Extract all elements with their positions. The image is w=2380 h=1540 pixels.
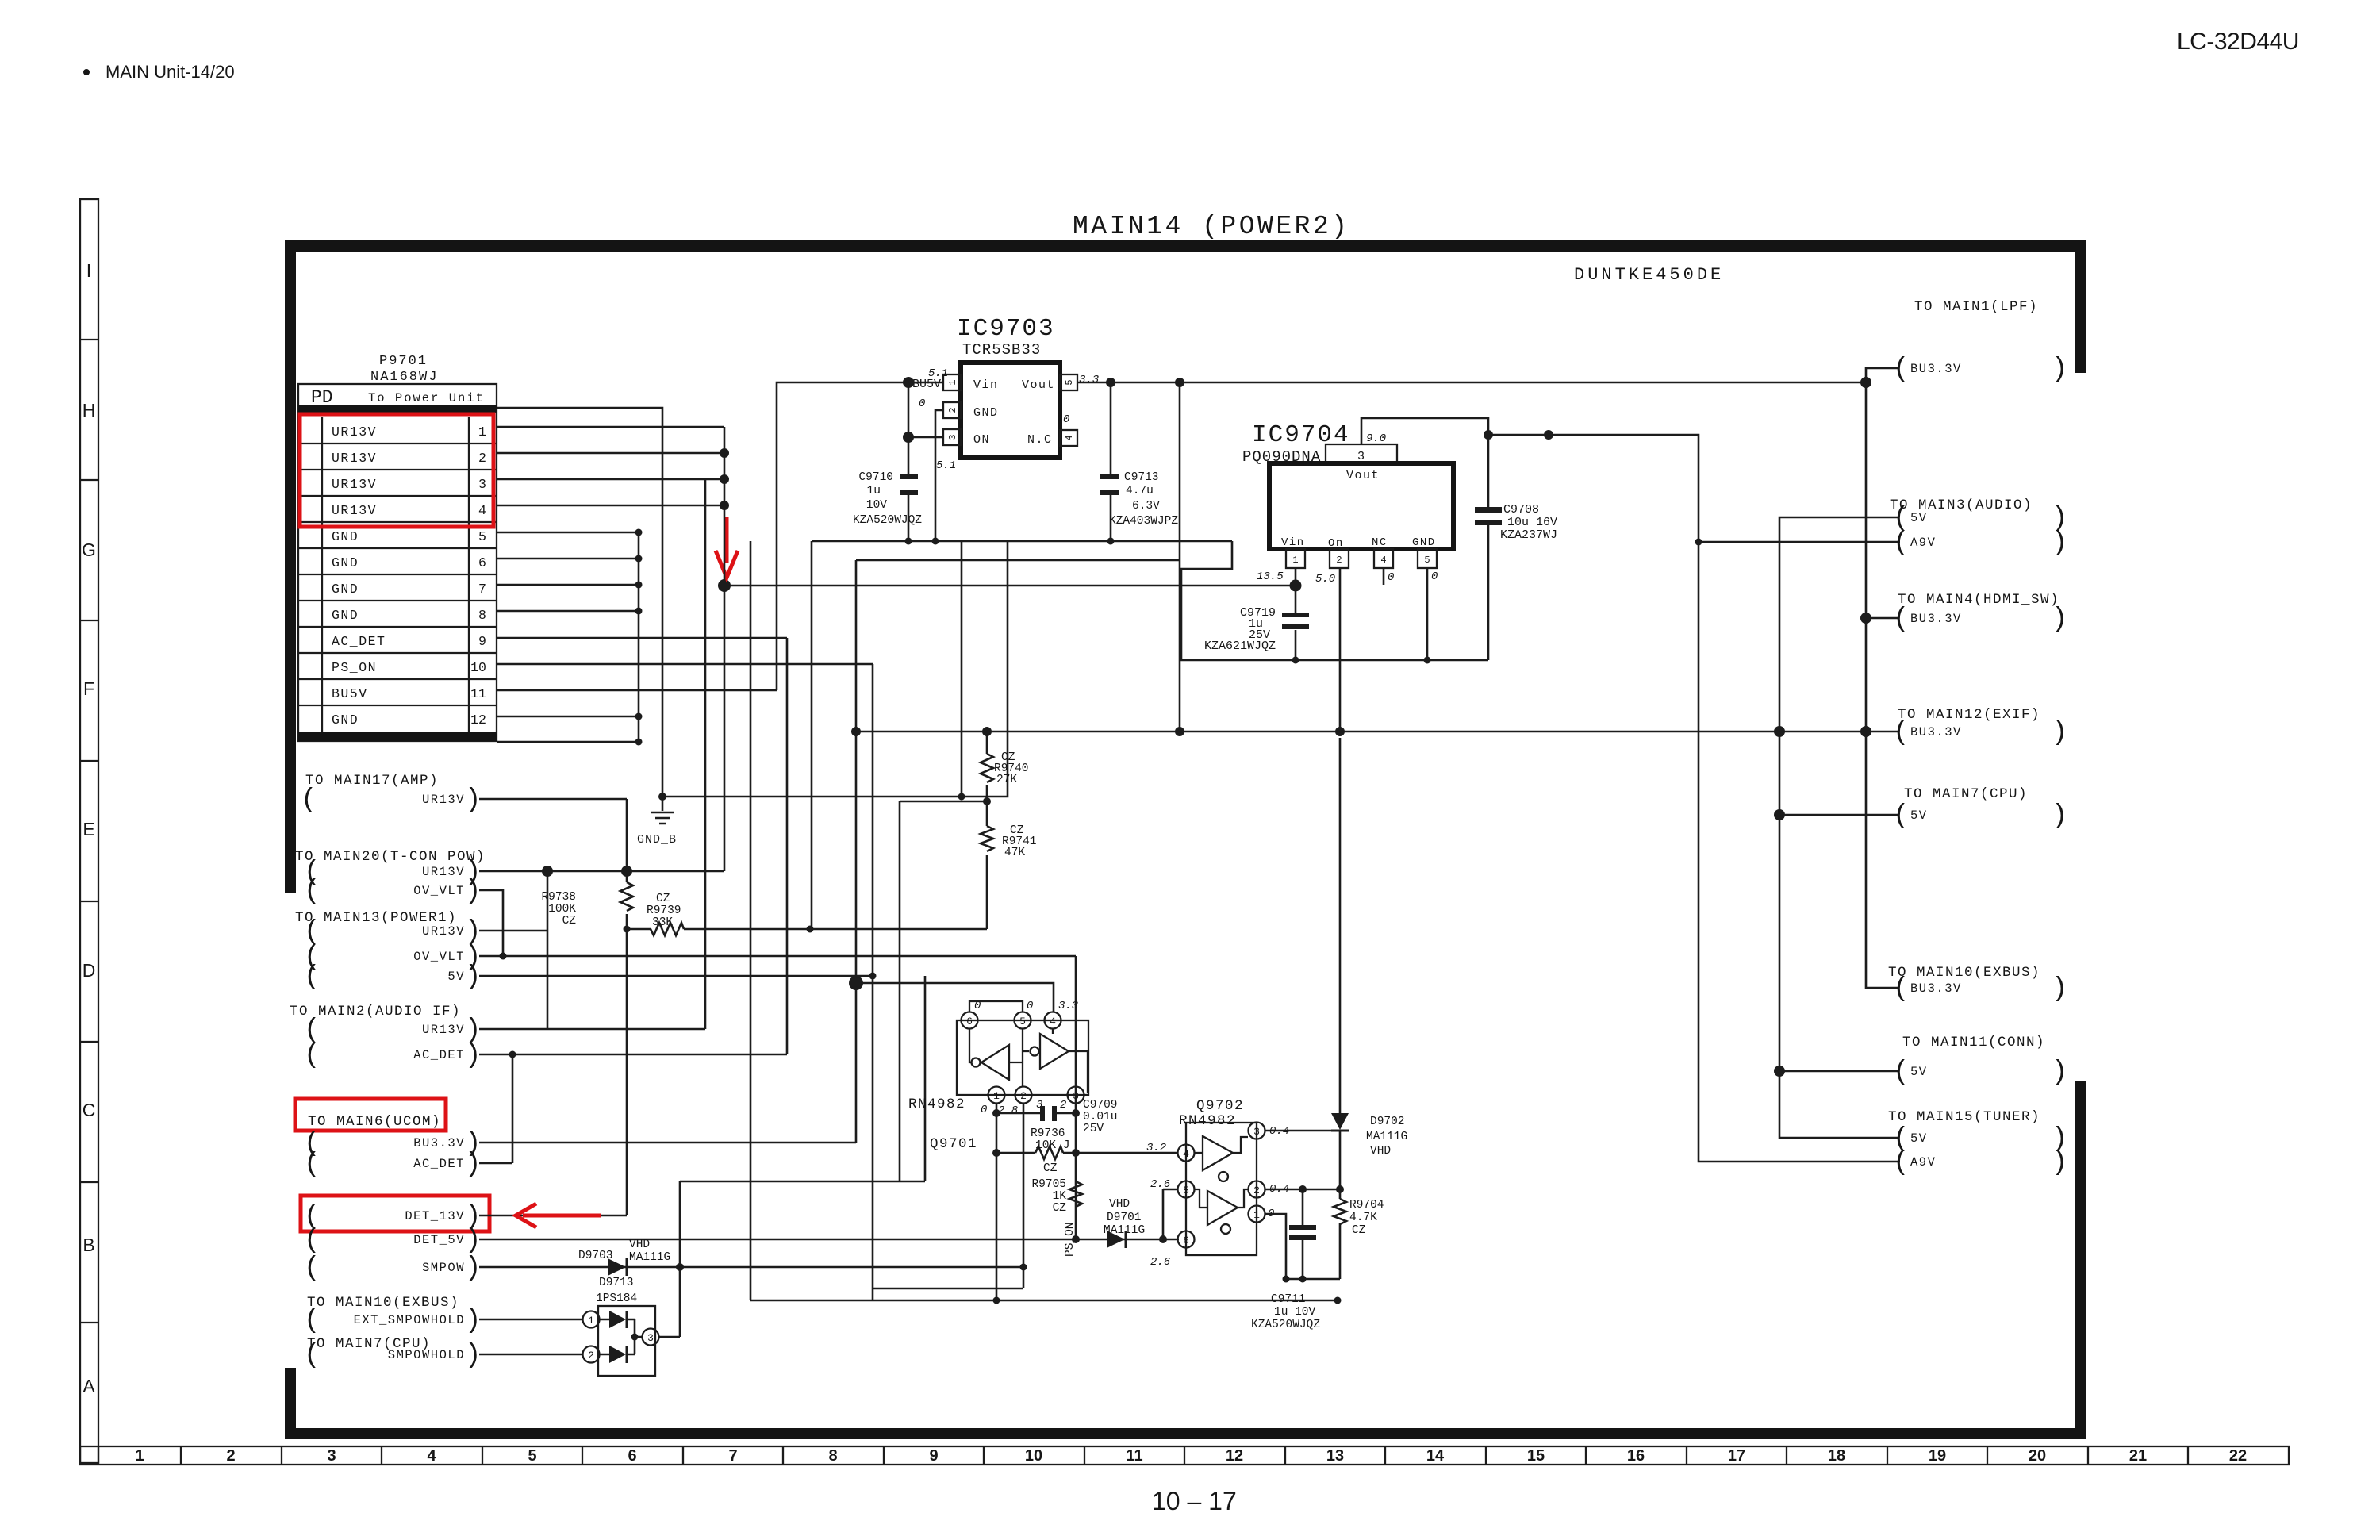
svg-text:5V: 5V <box>447 970 465 984</box>
svg-text:(: ( <box>304 1306 320 1336</box>
svg-text:10 – 17: 10 – 17 <box>1152 1487 1237 1515</box>
svg-text:15: 15 <box>1527 1447 1545 1465</box>
svg-text:4: 4 <box>1050 1016 1056 1027</box>
svg-text:5: 5 <box>1424 555 1430 566</box>
svg-text:1: 1 <box>135 1447 144 1465</box>
svg-text:5.1: 5.1 <box>936 459 956 472</box>
svg-text:6: 6 <box>628 1447 636 1465</box>
svg-text:6.3V: 6.3V <box>1132 500 1160 513</box>
svg-text:TO MAIN15(TUNER): TO MAIN15(TUNER) <box>1888 1109 2040 1125</box>
svg-text:UR13V: UR13V <box>332 477 377 492</box>
svg-text:2.8: 2.8 <box>998 1104 1018 1117</box>
svg-text:CZ: CZ <box>562 915 577 927</box>
svg-text:UR13V: UR13V <box>422 1023 465 1037</box>
svg-text:GND: GND <box>332 608 359 623</box>
svg-text:UR13V: UR13V <box>332 424 377 440</box>
svg-text:4.7K: 4.7K <box>1349 1212 1377 1224</box>
svg-text:MA111G: MA111G <box>1366 1131 1407 1143</box>
svg-text:D9701: D9701 <box>1107 1212 1142 1224</box>
svg-text:AC_DET: AC_DET <box>413 1157 465 1171</box>
svg-text:47K: 47K <box>1004 847 1025 859</box>
svg-text:A9V: A9V <box>1910 1155 1936 1169</box>
svg-text:6: 6 <box>478 555 486 570</box>
svg-text:TO MAIN17(AMP): TO MAIN17(AMP) <box>305 773 439 789</box>
svg-text:UR13V: UR13V <box>332 503 377 518</box>
svg-text:H: H <box>83 400 96 421</box>
svg-text:TCR5SB33: TCR5SB33 <box>962 341 1041 359</box>
svg-text:): ) <box>465 877 481 907</box>
svg-text:1: 1 <box>1253 1209 1260 1221</box>
svg-text:18: 18 <box>1828 1447 1845 1465</box>
svg-text:0.4: 0.4 <box>1269 1183 1289 1196</box>
svg-text:(: ( <box>304 1041 320 1071</box>
svg-text:PD: PD <box>311 387 333 408</box>
svg-text:20: 20 <box>2029 1447 2046 1465</box>
svg-text:C9710: C9710 <box>858 471 893 484</box>
svg-text:5: 5 <box>478 529 486 544</box>
svg-text:KZA621WJQZ: KZA621WJQZ <box>1204 639 1276 653</box>
svg-text:TO MAIN7(CPU): TO MAIN7(CPU) <box>1904 786 2028 802</box>
svg-text:12: 12 <box>1226 1447 1243 1465</box>
svg-text:E: E <box>83 819 94 839</box>
svg-text:6: 6 <box>1183 1235 1189 1246</box>
svg-text:1: 1 <box>1292 555 1298 566</box>
svg-text:): ) <box>2052 1148 2067 1178</box>
svg-text:10: 10 <box>470 660 486 675</box>
svg-text:16: 16 <box>1627 1447 1645 1465</box>
svg-text:TO MAIN1(LPF): TO MAIN1(LPF) <box>1914 299 2038 315</box>
svg-text:7: 7 <box>478 582 486 597</box>
svg-text:2: 2 <box>588 1350 594 1361</box>
svg-text:5V: 5V <box>1910 511 1928 525</box>
svg-text:C9708: C9708 <box>1503 503 1539 517</box>
svg-text:4: 4 <box>1183 1148 1189 1160</box>
svg-text:UR13V: UR13V <box>332 451 377 466</box>
svg-text:3: 3 <box>1253 1126 1260 1138</box>
svg-text:5: 5 <box>1064 379 1075 385</box>
svg-text:): ) <box>465 1226 481 1256</box>
svg-text:F: F <box>83 678 94 699</box>
svg-text:(: ( <box>1893 801 1909 831</box>
svg-text:(: ( <box>304 1150 320 1180</box>
svg-text:17: 17 <box>1728 1447 1745 1465</box>
svg-text:1PS184: 1PS184 <box>596 1292 637 1305</box>
svg-text:R9738: R9738 <box>541 891 576 904</box>
svg-text:(: ( <box>1893 718 1909 748</box>
svg-text:N.C: N.C <box>1027 433 1053 447</box>
svg-text:2: 2 <box>1253 1185 1260 1196</box>
svg-text:5: 5 <box>1183 1185 1189 1196</box>
svg-text:): ) <box>465 1254 481 1284</box>
svg-text:DET_13V: DET_13V <box>405 1209 465 1223</box>
svg-text:B: B <box>83 1235 94 1255</box>
svg-text:0.4: 0.4 <box>1269 1125 1289 1138</box>
svg-text:2: 2 <box>478 451 486 466</box>
svg-text:): ) <box>2052 974 2067 1004</box>
svg-text:C9713: C9713 <box>1124 471 1159 484</box>
svg-text:10u 16V: 10u 16V <box>1507 516 1557 529</box>
svg-text:R9704: R9704 <box>1349 1199 1384 1212</box>
svg-text:100K: 100K <box>548 903 576 916</box>
svg-text:TO MAIN12(EXIF): TO MAIN12(EXIF) <box>1898 707 2040 723</box>
svg-text:10: 10 <box>1025 1447 1042 1465</box>
svg-text:0: 0 <box>919 397 925 410</box>
svg-text:5V: 5V <box>1910 1065 1928 1079</box>
svg-text:EXT_SMPOWHOLD: EXT_SMPOWHOLD <box>354 1313 465 1327</box>
svg-text:GND: GND <box>332 712 359 728</box>
svg-text:(: ( <box>304 1226 320 1256</box>
svg-text:D9702: D9702 <box>1370 1116 1405 1128</box>
svg-text:UR13V: UR13V <box>422 865 465 879</box>
svg-text:C: C <box>83 1100 96 1120</box>
svg-text:Vin: Vin <box>973 378 999 392</box>
svg-text:6: 6 <box>966 1016 973 1027</box>
svg-text:KZA237WJ: KZA237WJ <box>1500 528 1557 542</box>
svg-text:9: 9 <box>929 1447 938 1465</box>
svg-text:(: ( <box>1893 528 1909 559</box>
svg-text:UR13V: UR13V <box>422 924 465 939</box>
svg-text:10V: 10V <box>866 499 887 512</box>
svg-text:0: 0 <box>974 1000 981 1012</box>
svg-text:(: ( <box>1893 1148 1909 1178</box>
svg-text:Vout: Vout <box>1022 378 1055 392</box>
svg-text:4.7u: 4.7u <box>1126 485 1154 497</box>
svg-text:): ) <box>2052 1058 2067 1088</box>
svg-text:2: 2 <box>1060 1099 1066 1112</box>
svg-text:13: 13 <box>1326 1447 1344 1465</box>
svg-text:): ) <box>465 962 481 993</box>
svg-text:KZA403WJPZ: KZA403WJPZ <box>1109 515 1178 528</box>
svg-text:VHD: VHD <box>629 1239 650 1251</box>
svg-text:1: 1 <box>588 1315 594 1327</box>
svg-text:BU3.3V: BU3.3V <box>1910 612 1962 626</box>
svg-text:To Power Unit: To Power Unit <box>368 391 485 405</box>
svg-text:): ) <box>465 1041 481 1071</box>
svg-text:2: 2 <box>226 1447 235 1465</box>
svg-text:C9711: C9711 <box>1271 1293 1306 1306</box>
svg-text:TO MAIN10(EXBUS): TO MAIN10(EXBUS) <box>307 1295 459 1311</box>
svg-text:11: 11 <box>1126 1447 1142 1465</box>
svg-text:1: 1 <box>993 1090 1000 1102</box>
svg-text:G: G <box>82 540 96 560</box>
svg-text:5V: 5V <box>1910 808 1928 823</box>
svg-text:DET_5V: DET_5V <box>413 1233 465 1247</box>
svg-text:MAIN Unit-14/20: MAIN Unit-14/20 <box>106 62 235 82</box>
svg-text:13.5: 13.5 <box>1257 570 1284 583</box>
svg-text:1: 1 <box>947 379 958 385</box>
svg-text:(: ( <box>1893 1058 1909 1088</box>
svg-text:1u 10V: 1u 10V <box>1274 1306 1316 1319</box>
svg-text:RN4982: RN4982 <box>908 1096 965 1112</box>
svg-text:5.0: 5.0 <box>1315 573 1335 586</box>
svg-text:CZ: CZ <box>656 893 670 905</box>
svg-text:33K: 33K <box>652 916 673 929</box>
svg-text:DUNTKE450DE: DUNTKE450DE <box>1574 265 1724 285</box>
svg-text:VHD: VHD <box>1109 1198 1130 1211</box>
svg-text:CZ: CZ <box>1352 1224 1366 1237</box>
svg-text:TO MAIN4(HDMI_SW): TO MAIN4(HDMI_SW) <box>1898 592 2059 608</box>
svg-text:1K: 1K <box>1053 1190 1067 1203</box>
svg-text:I: I <box>86 260 91 281</box>
svg-text:AC_DET: AC_DET <box>413 1048 465 1062</box>
svg-text:R9705: R9705 <box>1031 1178 1066 1191</box>
svg-text:): ) <box>2052 355 2067 385</box>
svg-text:(: ( <box>1893 974 1909 1004</box>
svg-text:A9V: A9V <box>1910 536 1936 550</box>
svg-text:0: 0 <box>1388 571 1394 584</box>
svg-text:BU3.3V: BU3.3V <box>413 1136 465 1150</box>
svg-text:MAIN14 (POWER2): MAIN14 (POWER2) <box>1073 212 1350 241</box>
svg-text:): ) <box>465 785 481 816</box>
svg-text:KZA520WJQZ: KZA520WJQZ <box>853 514 922 527</box>
svg-text:CZ: CZ <box>1053 1202 1067 1215</box>
svg-text:TO MAIN20(T-CON POW): TO MAIN20(T-CON POW) <box>295 849 486 865</box>
svg-text:): ) <box>465 1150 481 1180</box>
svg-text:3.3: 3.3 <box>1079 374 1099 386</box>
svg-text:GND: GND <box>332 555 359 570</box>
svg-text:14: 14 <box>1426 1447 1445 1465</box>
svg-text:25V: 25V <box>1083 1123 1104 1135</box>
svg-text:GND: GND <box>1412 536 1436 549</box>
svg-text:A: A <box>83 1376 95 1396</box>
svg-text:GND_B: GND_B <box>637 833 677 847</box>
svg-text:2.6: 2.6 <box>1150 1178 1170 1191</box>
svg-text:22: 22 <box>2229 1447 2247 1465</box>
svg-text:OV_VLT: OV_VLT <box>413 884 465 898</box>
svg-text:P9701: P9701 <box>379 354 428 369</box>
svg-text:3.2: 3.2 <box>1146 1142 1166 1154</box>
svg-text:BU5V: BU5V <box>912 378 941 391</box>
svg-text:10K J: 10K J <box>1035 1139 1070 1152</box>
svg-text:BU3.3V: BU3.3V <box>1910 362 1962 376</box>
svg-text:(: ( <box>304 962 320 993</box>
svg-text:BU3.3V: BU3.3V <box>1910 725 1962 739</box>
svg-text:On: On <box>1328 537 1344 550</box>
svg-text:RN4982: RN4982 <box>1179 1113 1236 1129</box>
svg-text:BU3.3V: BU3.3V <box>1910 981 1962 996</box>
svg-text:2: 2 <box>947 407 958 413</box>
svg-text:7: 7 <box>728 1447 737 1465</box>
svg-text:3: 3 <box>327 1447 336 1465</box>
svg-text:BU5V: BU5V <box>332 686 368 701</box>
svg-text:0: 0 <box>1431 570 1438 583</box>
svg-text:CZ: CZ <box>1043 1162 1058 1175</box>
svg-text:8: 8 <box>828 1447 837 1465</box>
svg-text:3: 3 <box>478 477 486 492</box>
svg-text:(: ( <box>304 1341 320 1371</box>
svg-text:1u: 1u <box>867 485 881 497</box>
svg-text:11: 11 <box>470 686 486 701</box>
svg-text:): ) <box>465 1306 481 1336</box>
svg-text:2: 2 <box>1336 555 1342 566</box>
svg-text:9: 9 <box>478 634 486 649</box>
svg-text:NA168WJ: NA168WJ <box>370 370 438 385</box>
svg-text:5: 5 <box>528 1447 536 1465</box>
svg-text:2.6: 2.6 <box>1150 1256 1170 1269</box>
svg-text:): ) <box>2052 718 2067 748</box>
svg-text:2: 2 <box>1020 1090 1027 1102</box>
svg-text:D9713: D9713 <box>599 1277 634 1289</box>
svg-text:KZA520WJQZ: KZA520WJQZ <box>1251 1319 1320 1331</box>
svg-text:Q9702: Q9702 <box>1196 1098 1244 1114</box>
svg-text:R9739: R9739 <box>647 904 681 917</box>
svg-text:4: 4 <box>427 1447 436 1465</box>
svg-text:UR13V: UR13V <box>422 793 465 807</box>
svg-text:0: 0 <box>1027 1000 1033 1012</box>
svg-text:): ) <box>465 1341 481 1371</box>
svg-text:3: 3 <box>947 434 958 440</box>
svg-text:IC9703: IC9703 <box>957 315 1055 343</box>
svg-text:Vout: Vout <box>1346 469 1380 482</box>
svg-text:3: 3 <box>647 1332 654 1344</box>
svg-text:0: 0 <box>1268 1208 1274 1220</box>
svg-text:D9703: D9703 <box>578 1250 613 1262</box>
svg-text:4: 4 <box>478 503 486 518</box>
svg-text:): ) <box>2052 801 2067 831</box>
svg-text:8: 8 <box>478 608 486 623</box>
svg-text:ON: ON <box>973 433 990 447</box>
svg-text:): ) <box>2052 528 2067 559</box>
svg-text:21: 21 <box>2129 1447 2147 1465</box>
svg-text:GND: GND <box>332 529 359 544</box>
svg-text:4: 4 <box>1064 435 1075 440</box>
svg-text:TO MAIN10(EXBUS): TO MAIN10(EXBUS) <box>1888 965 2040 981</box>
svg-text:AC_DET: AC_DET <box>332 634 386 649</box>
svg-text:(: ( <box>304 1254 320 1284</box>
svg-text:MA111G: MA111G <box>629 1251 670 1264</box>
svg-text:(: ( <box>1893 605 1909 635</box>
svg-text:LC-32D44U: LC-32D44U <box>2177 29 2299 55</box>
svg-text:19: 19 <box>1929 1447 1946 1465</box>
svg-text:12: 12 <box>470 712 486 728</box>
svg-text:TO MAIN6(UCOM): TO MAIN6(UCOM) <box>308 1114 441 1130</box>
svg-text:27K: 27K <box>996 774 1017 786</box>
svg-text:TO MAIN11(CONN): TO MAIN11(CONN) <box>1902 1035 2045 1050</box>
svg-text:NC: NC <box>1372 536 1388 549</box>
svg-text:): ) <box>2052 605 2067 635</box>
svg-text:Q9701: Q9701 <box>930 1136 977 1152</box>
svg-text:PS_ON: PS_ON <box>332 660 377 675</box>
svg-text:5: 5 <box>1019 1016 1026 1027</box>
svg-text:D: D <box>83 960 96 981</box>
svg-text:(: ( <box>1893 355 1909 385</box>
svg-text:OV_VLT: OV_VLT <box>413 950 465 964</box>
svg-text:C9709: C9709 <box>1083 1099 1118 1112</box>
svg-text:Vin: Vin <box>1281 536 1305 549</box>
svg-text:5V: 5V <box>1910 1131 1928 1146</box>
svg-text:VHD: VHD <box>1370 1145 1391 1158</box>
svg-text:0: 0 <box>981 1104 987 1116</box>
svg-text:4: 4 <box>1380 555 1386 566</box>
svg-text:R9736: R9736 <box>1031 1127 1065 1140</box>
svg-text:0: 0 <box>1063 413 1069 426</box>
svg-text:SMPOWHOLD: SMPOWHOLD <box>388 1348 465 1362</box>
svg-text:1: 1 <box>478 424 486 440</box>
svg-text:3: 3 <box>1073 1090 1079 1102</box>
svg-text:GND: GND <box>332 582 359 597</box>
svg-text:MA111G: MA111G <box>1104 1224 1145 1237</box>
svg-text:3.3: 3.3 <box>1058 1000 1078 1012</box>
svg-text:GND: GND <box>973 406 999 420</box>
svg-text:SMPOW: SMPOW <box>422 1261 465 1275</box>
svg-text:(: ( <box>301 785 317 816</box>
svg-text:(: ( <box>304 877 320 907</box>
svg-text:9.0: 9.0 <box>1366 432 1386 445</box>
svg-text:0.01u: 0.01u <box>1083 1111 1118 1123</box>
